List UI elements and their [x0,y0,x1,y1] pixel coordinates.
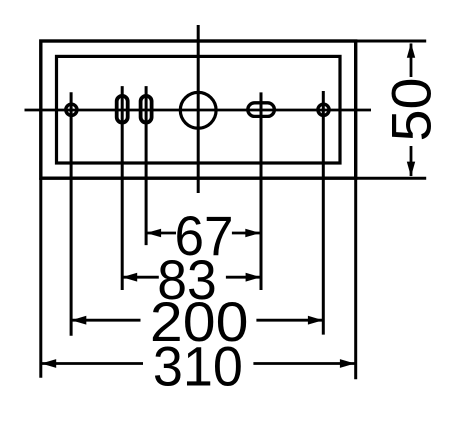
67 dimension left line segment [146,232,176,235]
inner plate rectangle [57,56,341,163]
200 dimension right arrowhead [308,316,323,325]
67 dimension right arrowhead [245,229,260,237]
svg-text:50: 50 [379,78,442,142]
extension line from right slot down to 67 dimension [145,86,148,245]
bottom extension line for 50 dimension [356,177,427,180]
right mounting hole circle [318,104,329,115]
310 dimension left arrowhead [41,359,56,368]
50 dimension upper line segment [410,44,413,78]
67 dimension left arrowhead [146,229,161,237]
extension line from left slot down to 83 dimension [121,86,124,290]
extension line from left hole down to 200 dimension [70,92,73,335]
left vertical slot [117,96,128,123]
200 dimension left line segment [71,319,140,322]
left mounting hole circle [66,104,77,115]
extension line from right hole down to 200 dimension [322,91,325,335]
horizontal centerline [25,109,372,112]
outer plate rectangle [41,41,356,178]
83 dimension left line segment [122,276,159,279]
extension line from horizontal slot down to 67/83 dimensions [260,92,263,290]
310 dimension left line segment [41,362,143,365]
svg-text:310: 310 [153,334,243,397]
50 dimension lower arrowhead [407,162,415,177]
83 dimension left arrowhead [122,273,137,282]
right extension line down to 310 dimension [354,178,357,379]
50 dimension upper arrowhead [407,43,415,58]
83 dimension right line segment [226,276,261,279]
top extension line for 50 dimension [356,40,427,43]
67 dimension right line segment [232,232,260,235]
large center hole circle [180,92,216,128]
right vertical slot [141,96,152,123]
horizontal slot hole [248,103,275,117]
vertical centerline through large circle [197,25,200,193]
left extension line down to 310 dimension [39,178,42,378]
50 dimension lower line segment [410,146,413,176]
310 dimension right line segment [253,362,355,365]
200 dimension right line segment [256,319,323,322]
83 dimension right arrowhead [246,273,261,282]
310 dimension right arrowhead [340,359,355,368]
200 dimension left arrowhead [71,316,86,325]
